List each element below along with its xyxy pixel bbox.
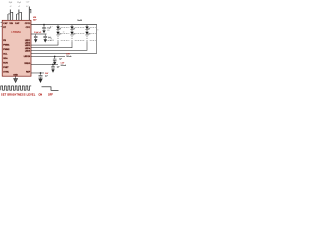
svg-text:CAP: CAP — [15, 22, 20, 25]
capacitor C5 — [34, 34, 38, 39]
PWM dimming waveform — [1, 86, 31, 90]
LED string 3 — [85, 25, 90, 51]
wire channel LED3 — [31, 49, 87, 52]
wire REF — [31, 72, 44, 75]
wire VREG2 — [31, 63, 58, 66]
capacitor C4 — [42, 25, 46, 31]
svg-text:2.5V: 2.5V — [45, 73, 49, 75]
svg-text:VIN: VIN — [33, 17, 37, 19]
svg-text:×2: ×2 — [18, 5, 20, 8]
dash near bus — [50, 26, 52, 28]
svg-text:OFF: OFF — [48, 93, 53, 96]
svg-text:200mA: 200mA — [66, 55, 72, 58]
wire channel LED4 — [31, 52, 97, 55]
svg-text:1µF: 1µF — [57, 66, 60, 68]
svg-text:2.2µF: 2.2µF — [47, 28, 51, 30]
svg-text:10: 10 — [50, 38, 52, 40]
dashed continuation row 3 — [47, 39, 96, 41]
svg-text:ON: ON — [39, 93, 43, 96]
svg-text:LEDS: LEDS — [50, 40, 54, 42]
svg-text:FB: FB — [3, 40, 6, 42]
svg-text:CPO1: CPO1 — [25, 23, 32, 25]
ground for C6 — [44, 39, 47, 42]
svg-text:N: N — [97, 30, 98, 32]
capacitor C2 network — [16, 10, 22, 21]
dashed continuation row 1 — [61, 27, 96, 29]
svg-text:CPO: CPO — [26, 27, 31, 29]
svg-text:1µF: 1µF — [45, 76, 48, 78]
ground for C8 — [51, 69, 54, 72]
svg-text:LED5: LED5 — [25, 50, 31, 52]
svg-text:0.1µF: 0.1µF — [26, 1, 30, 3]
capacitor C9 — [39, 73, 43, 79]
svg-text:LED16: LED16 — [24, 56, 31, 58]
svg-text:300mA: 300mA — [61, 64, 67, 67]
capacitor C7 — [53, 57, 57, 62]
svg-text:1µF: 1µF — [59, 58, 62, 60]
svg-text:N×M: N×M — [77, 19, 82, 22]
svg-text:PWM2: PWM2 — [3, 49, 10, 51]
svg-text:4.7: 4.7 — [26, 6, 28, 8]
svg-text:SYNC: SYNC — [3, 71, 9, 73]
capacitor C8 — [51, 65, 55, 70]
wire left pin stub B — [1, 25, 3, 28]
dashed continuation row 2 — [61, 33, 96, 35]
LED string 1 — [56, 25, 61, 46]
svg-text:10: 10 — [63, 31, 65, 33]
wire channel LED16 — [31, 55, 65, 58]
svg-text:24V: 24V — [33, 20, 37, 22]
svg-text:×2: ×2 — [10, 5, 12, 8]
capacitor C6 — [43, 34, 47, 39]
svg-text:VREG: VREG — [24, 63, 30, 65]
ON OFF step waveform — [42, 87, 59, 91]
node junction VREG2 cap — [52, 64, 54, 66]
wire channel LED1 — [31, 44, 58, 47]
wire left pin stub A — [1, 21, 3, 24]
ground for C4 — [42, 30, 45, 33]
wire Nth string — [95, 25, 98, 54]
capacitor C3 network — [29, 7, 31, 21]
svg-text:SET BRIGHTNESS LEVEL: SET BRIGHTNESS LEVEL — [1, 93, 36, 96]
svg-text:CAP: CAP — [3, 22, 8, 25]
svg-text:REF: REF — [26, 72, 31, 74]
wire VIN bus — [31, 23, 97, 26]
svg-text:LT3595A: LT3595A — [11, 31, 21, 34]
svg-text:22µF: 22µF — [17, 2, 21, 4]
svg-text:SCL: SCL — [3, 53, 8, 55]
ground for C9 — [38, 79, 42, 84]
ground for C5 — [34, 39, 37, 42]
svg-text:22µF: 22µF — [9, 2, 13, 4]
svg-text:PWM1: PWM1 — [3, 44, 10, 46]
svg-text:50V: 50V — [47, 30, 50, 32]
ground for C7 — [53, 62, 56, 65]
svg-text:RUN: RUN — [3, 62, 8, 64]
svg-text:FSET: FSET — [3, 67, 9, 69]
LED string 2 — [70, 25, 75, 48]
svg-text:VIN: VIN — [9, 23, 13, 25]
svg-text:2.2µF ×2: 2.2µF ×2 — [34, 31, 41, 34]
svg-text:SDA: SDA — [3, 57, 8, 60]
wire channel LED2 — [31, 46, 72, 49]
svg-text:LED4: LED4 — [25, 47, 31, 50]
IC U1 LT3595A body — [2, 20, 31, 76]
capacitor C1 network — [8, 10, 13, 21]
wire CAP pin — [31, 33, 47, 36]
node junction on bus at C4 — [43, 24, 45, 26]
node junction REF cap — [40, 72, 42, 74]
node junction VREG cap — [54, 56, 56, 58]
ground GND pin — [14, 76, 18, 82]
